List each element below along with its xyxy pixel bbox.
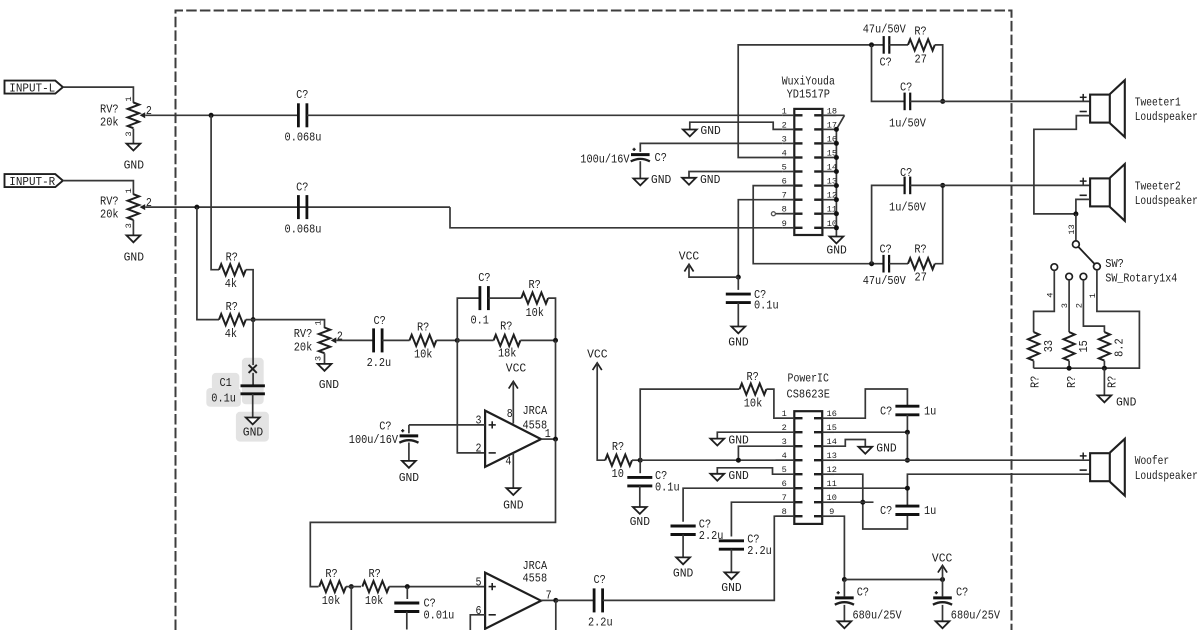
resistor R? 10k (stage2 second) [362,567,389,608]
svg-text:R?: R? [914,243,926,257]
svg-text:INPUT-R: INPUT-R [9,175,55,189]
wire supply rail [844,579,942,581]
junction at op-amp2 output [553,598,558,603]
wire YD1517P ground bus [835,129,837,236]
wire left loop tweeter2 [872,185,905,263]
wire 680u left to GND [843,605,845,621]
junction CS pin3/pin4 node [736,458,741,463]
svg-text:1: 1 [124,188,134,193]
svg-text:Woofer: Woofer [1135,454,1170,468]
junction at C? 0.01u [405,584,410,589]
wire pole to switch (pin 13) [1067,214,1077,241]
wire op-amp2 output feedback down [555,600,557,630]
resistor R? 27 (tweeter2) [908,243,935,285]
DNP X mark on C1 [249,365,257,373]
svg-text:PowerIC: PowerIC [788,372,829,386]
input port connector INPUT-L [5,81,63,96]
resistor R? 10k (stage2 first) [319,567,346,608]
wire pot R pin3 to GND [132,220,134,236]
svg-text:4558: 4558 [523,571,548,585]
wire pot L pin3 to GND [132,129,134,144]
wire junction to RV? 20k pin 1 [246,320,325,329]
svg-text:INPUT-L: INPUT-L [9,81,55,95]
wire CS pin 15 to 1u node [834,431,907,433]
wire VCC down to R? 10 [597,363,605,460]
svg-text:R?: R? [612,440,624,454]
junction at R10 / C0.1u node [638,458,643,463]
svg-text:3: 3 [1060,303,1070,308]
svg-text:C?: C? [296,181,308,195]
IC U? WuxiYouda YD1517P [782,75,837,236]
wire junction to CS8623E pin 4 (long) [640,459,794,461]
wire C? 2.2u to CS8623E pin 8 [603,516,795,600]
capacitor C? 0.1 (feedback) [470,271,490,328]
svg-text:10k: 10k [322,594,341,608]
capacitor C? 1u (upper) [880,404,936,418]
junction top network input [869,42,874,47]
wire CS pin 6 to C? 2.2u [683,488,775,522]
capacitor C? 2.2u (series) [367,314,392,370]
svg-text:33: 33 [1042,340,1056,352]
svg-text:VCC: VCC [587,347,607,361]
wire 47u to R? 27 [889,44,908,46]
wire INPUT-L to RV? pot pin1 [63,87,133,103]
wire pot3 pin3 to GND [324,353,326,364]
IC U? PowerIC CS8623E [776,372,837,524]
wire Tweeter1 - down to switch pole [1034,116,1090,214]
capacitor C? 47u/50V (tweeter2) [863,243,907,289]
svg-text:C?: C? [593,573,605,587]
svg-text:20k: 20k [100,208,119,222]
wire op-amp pin 4 to GND [512,453,514,488]
svg-text:C?: C? [880,404,892,418]
svg-text:4: 4 [782,451,787,461]
wire into 47u cap (tweeter1) [872,44,884,46]
resistor R? 33 [1028,332,1056,388]
svg-text:GND: GND [243,425,263,439]
svg-text:C?: C? [478,271,490,285]
resistor R? 8.2 [1099,332,1127,388]
capacitor C? 2.2u (output coupling) [588,573,613,630]
svg-text:R?: R? [325,567,337,581]
svg-text:6: 6 [782,479,787,489]
wire CS pin 12 down [834,474,907,529]
svg-text:C?: C? [879,56,891,70]
svg-text:JRCA: JRCA [523,404,548,418]
svg-text:VCC: VCC [679,250,699,264]
wire YD pin 6 to tweeter2 network [753,186,871,264]
svg-text:2: 2 [1074,303,1084,308]
svg-text:47u/50V: 47u/50V [863,274,907,288]
svg-text:4k: 4k [225,277,237,291]
wire YD pin 3 to 100u cap [640,143,782,152]
svg-text:2: 2 [476,442,482,456]
svg-text:C1: C1 [219,376,231,390]
wire R junction down to R? 4k lower [197,207,219,320]
wire RV? wiper to C? 0.068u (L channel) [145,114,298,116]
svg-text:18k: 18k [498,346,517,360]
resistor R? 10k (series) [410,321,437,362]
ground GND below pin7 cap [721,572,741,595]
ground GND below 100u cap [399,461,419,485]
wire feedback R to node B [548,298,555,340]
ground GND below right pot [124,235,144,264]
selection highlight C1 [206,358,269,442]
ground GND below pot3 [318,364,340,392]
junction node B [553,338,558,343]
svg-text:2.2u: 2.2u [588,616,613,630]
svg-text:GND: GND [728,336,748,350]
svg-text:C?: C? [900,80,912,94]
svg-text:GND: GND [1116,395,1136,409]
svg-text:100u/16V: 100u/16V [580,153,630,167]
loudspeaker Woofer [1080,439,1198,496]
capacitor C? 1u (lower) [880,504,936,518]
capacitor C1 0.1u (DNP, highlighted) [211,373,265,406]
ground GND at CS pin 2 [710,434,748,448]
junction rail at R15 [1067,366,1072,371]
svg-text:R?: R? [368,567,380,581]
wire into 47u cap (tweeter2) [872,263,884,265]
svg-text:GND: GND [673,566,693,580]
wire 680u right to GND [942,605,944,621]
svg-text:1: 1 [124,96,134,101]
wire 4k junction down to C1 [252,320,254,365]
resistor R? 10k (feedback) [521,278,548,320]
junction rail at R8.2 [1102,366,1107,371]
svg-text:0.1: 0.1 [470,314,489,328]
junction at YD VCC node [736,275,741,280]
svg-text:3: 3 [313,356,323,361]
switch position contacts 4/3/2 [1051,264,1087,280]
wire Tweeter2 - to switch pole [1076,199,1090,214]
svg-text:100u/16V: 100u/16V [349,433,399,447]
svg-text:9: 9 [829,507,834,517]
svg-text:0.1u: 0.1u [655,481,680,495]
svg-text:1u: 1u [924,404,936,418]
potentiometer RV? 20k (left input) [100,96,152,136]
wire node A to R? 18k [457,339,493,341]
ground GND below attenuator [1098,395,1137,409]
junction tweeter2 output [940,183,945,188]
ground GND at YD pin 5 [682,173,720,187]
wire op-amp1 output down and to second stage [310,439,555,586]
capacitor C? 680u/25V (left) [835,580,903,623]
wire CS pin 10 stub [834,501,874,503]
svg-text:C?: C? [956,586,968,600]
svg-text:3: 3 [782,437,787,447]
wire R? 4k upper to junction [246,270,253,320]
switch SW? SW_Rotary1x4 [1073,241,1178,286]
svg-text:C?: C? [880,504,892,518]
junction on L channel wire [209,113,214,118]
wire op-amp2 output [541,599,556,601]
svg-text:R?: R? [1105,376,1119,388]
svg-text:27: 27 [915,271,927,285]
capacitor C? 100u/16V (YD bias) [580,148,667,167]
capacitor C? 1u/50V (tweeter2) [889,166,927,215]
resistor R? 15 [1064,332,1092,388]
capacitor C? 0.068u (R channel) [285,181,322,237]
svg-text:2: 2 [782,120,787,130]
svg-text:VCC: VCC [506,361,526,375]
svg-text:7: 7 [782,493,787,503]
svg-text:R?: R? [226,300,238,314]
svg-text:9: 9 [782,219,787,229]
svg-text:1: 1 [782,106,787,116]
power VCC above op-amp pin 8 [506,361,526,388]
wire CS pin 14 to GND [834,440,865,447]
ground GND below op-amp pin 4 [503,488,523,513]
wire C? 0.1 to R? 10k feedback [488,297,521,299]
wire node A up to feedback branch [457,298,480,340]
svg-text:5: 5 [782,465,787,475]
capacitor C? 0.1u (CS input filter) [627,460,679,494]
no-connect circle at YD pin 8 [771,212,794,216]
wire C? 1u down to pin 15 line [906,415,908,432]
svg-text:10k: 10k [414,348,433,362]
junction at op-amp 1 output [553,437,558,442]
svg-text:13: 13 [1067,224,1077,234]
wire contact 4 to R? 33 [1034,270,1056,332]
svg-text:680u/25V: 680u/25V [853,608,903,622]
wire bottom rail of attenuator [1034,367,1140,369]
ground GND below 100u (YD) [633,173,671,187]
junction at switch pole [1073,211,1078,216]
junction node A (op-amp inverting input net) [455,338,460,343]
wire left loop tweeter1 [872,45,905,102]
svg-text:5: 5 [476,576,482,590]
wire CS pin 2 to GND [717,432,775,438]
wire 47u to R? 27 (tweeter2) [889,263,908,265]
svg-text:4: 4 [505,455,511,469]
wire op-amp output pin 1 [541,438,556,440]
resistor R? 4k (lower) [219,300,246,341]
input port connector INPUT-R [5,174,63,189]
wire to Tweeter1 + [910,100,1090,102]
svg-text:GND: GND [651,173,671,187]
svg-text:RV?: RV? [100,103,119,117]
svg-text:1: 1 [782,409,787,419]
capacitor C? 0.1u (YD decoupling) [726,277,779,312]
wire to Tweeter2 + [910,184,1090,186]
svg-text:0.01u: 0.01u [424,608,455,622]
op-amp U1 JRCA 4558 (first) [476,404,551,469]
ground GND below C? 0.1u [630,507,650,529]
wire 100u cap to GND [408,443,410,461]
potentiometer RV? 20k (volume) [294,320,343,361]
junctions on YD ground bus [834,127,839,230]
svg-text:1u/50V: 1u/50V [889,116,927,130]
wire contact 3 to R? 15 [1060,280,1070,332]
svg-text:WuxiYouda: WuxiYouda [782,75,835,89]
junction of 4k resistors [251,317,256,322]
wire junction up to R? 10k [640,389,739,460]
capacitor C? 100u/16V (op-amp bias) [349,420,419,447]
wire R? 10 to junction [632,459,640,461]
resistor R? 27 (tweeter1) [908,24,935,66]
svg-text:5: 5 [782,163,787,173]
wire junction down (stage2 bias) [350,587,352,630]
junction at pin 13 line [905,458,910,463]
ground GND at CS pin 5 [710,469,748,483]
svg-text:2.2u: 2.2u [367,356,392,370]
resistor R? 18k [494,320,521,361]
ground GND below left pot [124,144,144,173]
wire R? 27 up to tweeter2 node [935,185,943,263]
capacitor C? 0.068u (L channel) [285,88,322,144]
wire node A down to op-amp pin 2 [457,340,485,453]
svg-text:SW?: SW? [1105,257,1124,271]
svg-text:8: 8 [782,507,787,517]
power VCC at supply rail [932,551,952,579]
svg-text:GND: GND [700,173,720,187]
svg-text:Tweeter1: Tweeter1 [1135,96,1181,110]
svg-text:R?: R? [746,370,758,384]
wire YD1517P pin 18 tie [822,115,844,129]
loudspeaker Tweeter1 [1080,80,1198,137]
svg-text:C?: C? [379,420,391,434]
svg-text:20k: 20k [100,116,119,130]
wire contact 1 to bottom rail [1088,270,1139,368]
svg-text:GND: GND [124,159,144,173]
wire pot3 wiper to C? 2.2u [336,339,373,341]
svg-text:2.2u: 2.2u [747,544,772,558]
capacitor C? 47u/50V (tweeter1) [863,23,907,70]
svg-text:1u: 1u [924,504,936,518]
wire contact 2 to R? 8.2 [1074,280,1104,332]
svg-text:GND: GND [700,124,720,138]
ground GND below C1 [243,418,263,440]
wire L junction down to R? 4k [211,115,219,269]
wire node B down to op-amp output [555,340,557,439]
svg-text:47u/50V: 47u/50V [863,23,907,37]
resistor R? 4k (upper) [219,250,246,291]
wire 100u cap to GND [639,161,641,178]
wire C1 to GND [252,394,254,418]
svg-text:YD1517P: YD1517P [787,88,830,102]
svg-text:680u/25V: 680u/25V [951,608,1001,622]
svg-text:0.068u: 0.068u [285,223,322,237]
wire CS pin 7 to C? 2.2u [731,502,775,536]
wire INPUT-R to RV? pot pin1 [63,181,133,195]
wire CS pin 11 to 1u node [834,487,907,489]
wire CS pin 3 to node [738,446,775,460]
svg-text:27: 27 [915,53,927,67]
capacitor C? 1u/50V (tweeter1) [889,80,927,130]
junction between stage2 resistors [349,584,354,589]
svg-text:C?: C? [879,243,891,257]
wire 100u cap to op-amp pin 3 [409,424,485,426]
svg-text:Loudspeaker: Loudspeaker [1135,110,1198,124]
svg-text:GND: GND [728,469,748,483]
svg-text:GND: GND [876,442,896,456]
wire RV? wiper R channel [145,206,450,208]
wire woofer - line [907,474,1090,506]
wire YD pin 7 down to VCC node [738,200,794,277]
svg-text:20k: 20k [294,341,313,355]
svg-text:GND: GND [826,243,846,257]
svg-text:C?: C? [857,586,869,600]
junction at pin 11 line [905,486,910,491]
svg-text:Loudspeaker: Loudspeaker [1135,469,1198,483]
wire R? 18k to node B [520,339,555,341]
ground GND below YD1517P [826,237,846,258]
svg-text:10k: 10k [744,396,763,410]
svg-text:R?: R? [1029,376,1043,388]
capacitor C? 0.01u [394,587,454,630]
capacitor C? 680u/25V (right) [933,580,1001,623]
wire VCC to op-amp pin 8 [512,381,514,423]
svg-text:GND: GND [630,515,650,529]
svg-text:4k: 4k [225,327,237,341]
junction supply node left [842,577,847,582]
junction tweeter2 network input [869,261,874,266]
svg-text:15: 15 [1077,340,1091,352]
wire R? 10k to CS8623E pin 1 [766,389,794,418]
wire op-amp2 pin 6 loop [470,615,485,630]
svg-text:1: 1 [1088,293,1098,298]
ground GND below pin6 cap [673,557,693,580]
svg-text:C?: C? [900,166,912,180]
wire YD pin 4 from top network [738,45,871,158]
wire R? 27 to tweeter1 node [935,45,943,102]
wire R? 10k to op-amp pin 5 [389,586,485,588]
svg-text:GND: GND [319,378,339,392]
svg-text:Tweeter2: Tweeter2 [1135,179,1181,193]
svg-text:R?: R? [914,24,926,38]
svg-text:R?: R? [528,278,540,292]
wire CS pin 9 to supply node [834,516,844,579]
svg-text:2: 2 [782,423,787,433]
wire CS pin 5 to GND [717,468,775,474]
wire rail to GND [1103,368,1105,395]
potentiometer RV? 20k (right input) [100,188,152,228]
svg-text:4558: 4558 [523,418,548,432]
svg-text:10k: 10k [525,306,544,320]
wire C? 0.1u YD to GND [737,303,739,327]
wire CS pin 13 to Woofer + [834,459,1090,461]
wire R? 10k to node A [436,339,457,341]
svg-text:4: 4 [1046,293,1056,298]
svg-text:0.068u: 0.068u [285,130,322,144]
wire C? 0.068u to YD1517P pin 1 [307,114,782,116]
svg-text:C?: C? [296,88,308,102]
svg-text:1: 1 [313,320,323,325]
svg-text:GND: GND [124,250,144,264]
svg-text:R?: R? [417,321,429,335]
junction pin 12 line at pin 10 [860,500,865,505]
ground GND below 680u right [936,621,950,628]
wire between stage2 resistors [346,586,361,588]
resistor R? 10k (CS feedback) [740,370,767,410]
wire C? 2.2u to R? 10k [382,339,409,341]
svg-text:Loudspeaker: Loudspeaker [1135,194,1198,208]
svg-text:C?: C? [373,314,385,328]
loudspeaker Tweeter2 [1080,164,1198,221]
ground GND below YD 0.1u [728,327,748,350]
capacitor C? 2.2u (CS pin 7) [719,532,772,558]
wire 2.2u pin6 to GND [682,535,684,558]
power VCC at YD pin 7 [679,250,739,278]
junction tweeter1 output [940,99,945,104]
svg-text:8.2: 8.2 [1112,338,1126,357]
wire YD pin 5 to GND [689,172,782,178]
junction at pin 15 line [905,430,910,435]
svg-text:1u/50V: 1u/50V [889,201,927,215]
svg-text:6: 6 [476,604,482,618]
svg-text:3: 3 [782,134,787,144]
